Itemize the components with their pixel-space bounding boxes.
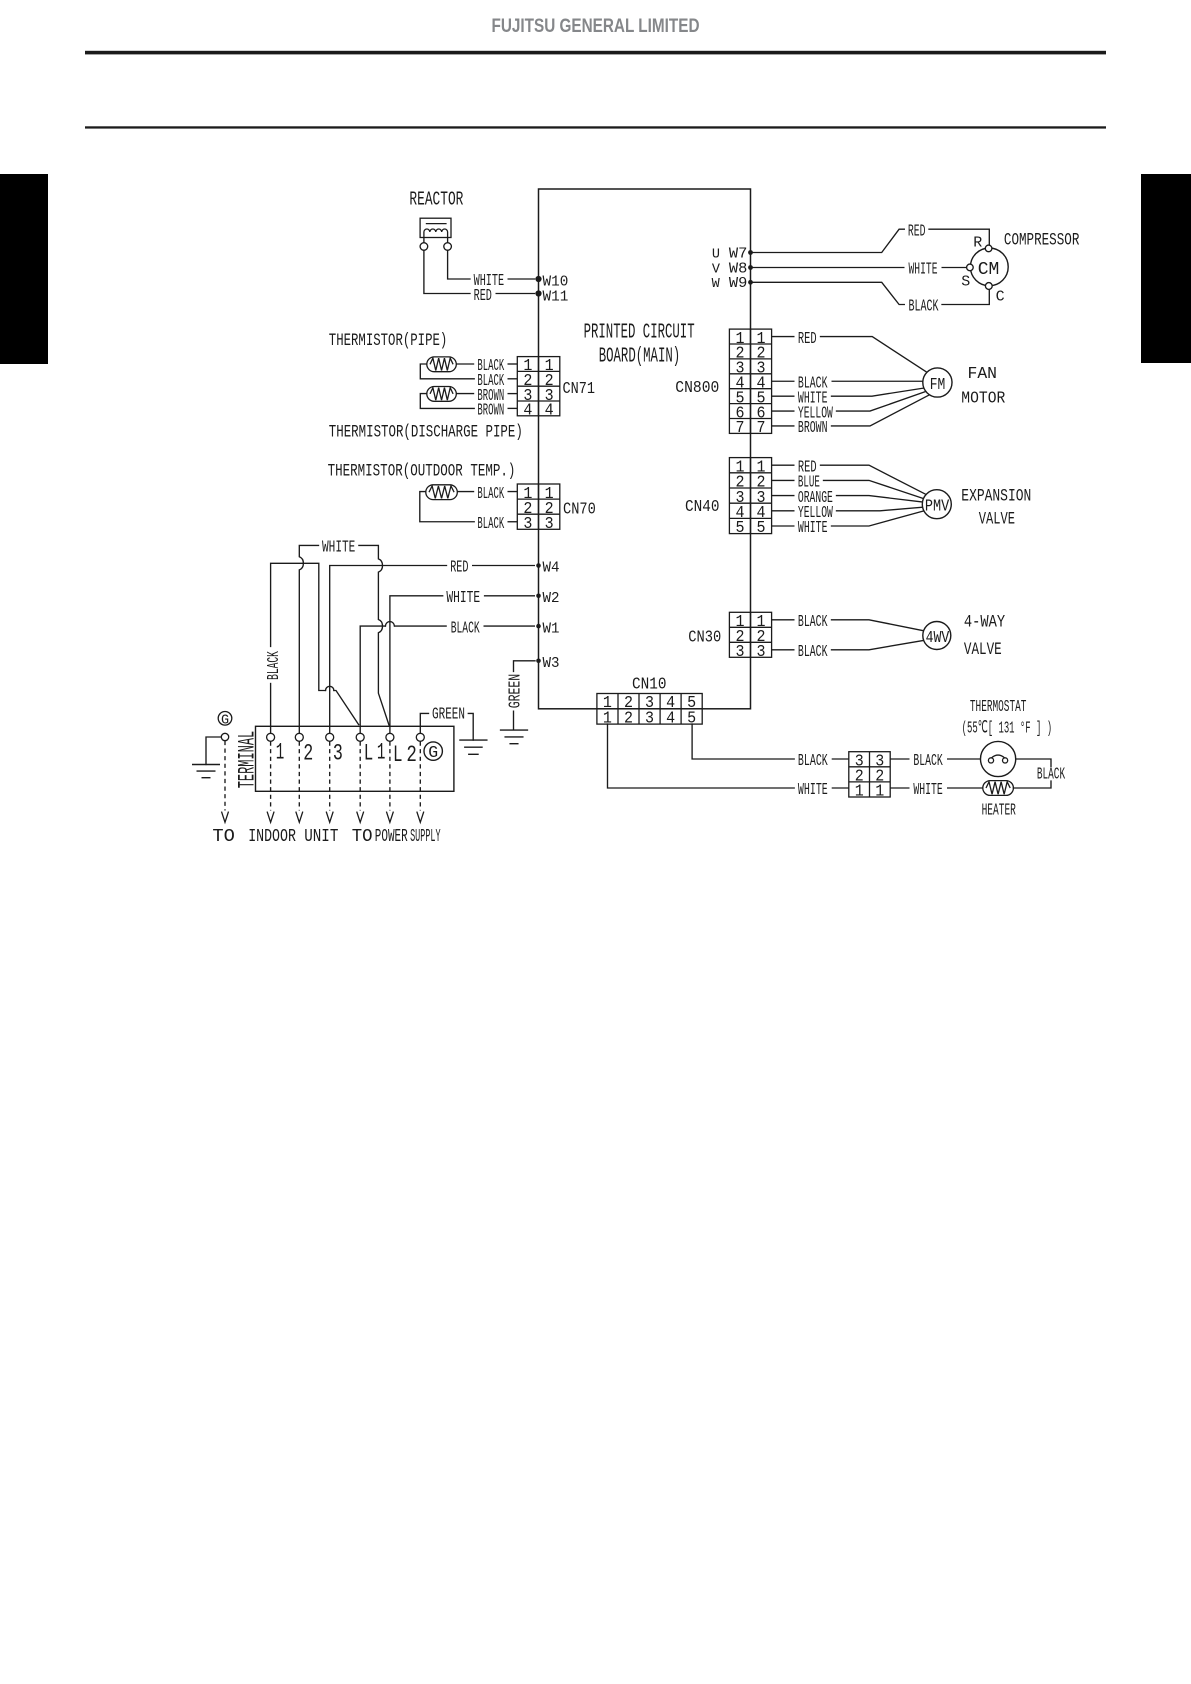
wire: CN40 pin3 to expansion valve	[837, 496, 923, 502]
svg-text:BLACK: BLACK	[798, 752, 828, 771]
svg-text:GREEN: GREEN	[432, 705, 465, 724]
svg-text:WHITE: WHITE	[322, 539, 355, 558]
arrow terminal 4	[357, 812, 364, 823]
terminal screw 5	[386, 733, 394, 741]
compressor terminal S	[967, 264, 974, 271]
svg-text:RED: RED	[908, 222, 926, 241]
svg-text:THERMOSTAT: THERMOSTAT	[970, 698, 1027, 717]
connector CN40	[729, 458, 771, 534]
svg-text:VALVE: VALVE	[964, 640, 1002, 660]
node W7	[748, 250, 753, 255]
arrow terminal 3	[326, 812, 333, 823]
wire: CN800 pin6 stub (yellow)	[772, 410, 795, 412]
wire: CN800 pin7 to fan motor	[832, 395, 929, 426]
svg-text:G: G	[221, 713, 229, 728]
wire: W4 line right part	[472, 565, 535, 567]
node W8	[748, 265, 753, 270]
svg-text:7: 7	[735, 419, 744, 438]
svg-text:1: 1	[377, 739, 386, 766]
wire: TH1 to CN71 pin2 (black), left part	[420, 364, 474, 379]
svg-text:W3: W3	[543, 655, 560, 672]
svg-text:BROWN: BROWN	[477, 402, 504, 421]
arrow earth	[222, 812, 229, 823]
svg-text:REACTOR: REACTOR	[409, 189, 463, 211]
wire: thermostat to heater (black), upper part	[1016, 759, 1051, 767]
svg-text:L: L	[393, 742, 403, 769]
wire: CN800 pin4 stub (black)	[772, 380, 795, 382]
wire: CN10 pin1 to interface (white), left part	[608, 724, 795, 788]
reactor terminal (left)	[420, 243, 428, 251]
ground (W3)	[500, 730, 528, 744]
wire: reactor to W11 (red), right part	[496, 293, 536, 295]
wire: W3 green lower	[513, 711, 515, 731]
heater element	[983, 781, 1014, 796]
wire: W7 to compressor R (red), left part	[751, 229, 905, 252]
wire: TH3 to CN70 pin1 (black), right part	[508, 491, 518, 493]
svg-text:FUJITSU GENERAL LIMITED: FUJITSU GENERAL LIMITED	[492, 16, 700, 37]
svg-text:CN40: CN40	[685, 498, 720, 517]
terminal screw 4	[356, 733, 364, 741]
node W11	[535, 290, 541, 296]
svg-text:4: 4	[523, 402, 532, 421]
svg-text:W9: W9	[729, 275, 748, 292]
wire: interface pin1 stub (white)	[890, 787, 909, 789]
wire: white to interface connector	[832, 787, 849, 789]
wire: link diagonal to L1	[334, 691, 359, 725]
wire: CN40 pin4 to expansion valve	[837, 507, 923, 511]
wire: CN40 pin1 stub (red)	[772, 464, 795, 466]
wire: TH1 to CN71 pin2 (black), right part	[508, 378, 518, 380]
thermistor TH3 (outdoor temp)	[426, 485, 458, 500]
svg-text:V: V	[712, 262, 721, 277]
svg-text:THERMISTOR(DISCHARGE PIPE): THERMISTOR(DISCHARGE PIPE)	[329, 422, 523, 442]
wire: CN40 pin5 to expansion valve	[832, 511, 924, 526]
wire: dashed lead earth	[224, 741, 226, 811]
earth terminal screw (left)	[221, 733, 228, 740]
reactor L (iron-core inductor)	[420, 218, 451, 237]
wire: W9 to compressor C (black), right part	[942, 290, 989, 305]
svg-text:W: W	[712, 277, 721, 292]
svg-text:UNIT: UNIT	[304, 827, 338, 847]
wire: W9 to compressor C (black), left part	[751, 282, 905, 304]
svg-text:BLACK: BLACK	[798, 613, 828, 632]
wire: reactor to W10 (white), left part	[448, 250, 470, 279]
wire: dashed lead terminal 3	[329, 742, 331, 811]
wire: dashed lead terminal 6	[419, 742, 421, 811]
arrow terminal 2	[296, 812, 303, 823]
wire: W1 line mid	[394, 625, 446, 627]
svg-text:BLACK: BLACK	[477, 515, 504, 534]
node W3	[536, 659, 541, 664]
svg-text:POWER: POWER	[375, 827, 408, 847]
wire hop: W1 line over L2 riser	[385, 622, 394, 627]
svg-text:4-WAY: 4-WAY	[964, 613, 1006, 633]
wire: TH1 to CN71 pin1 (black), right part	[508, 363, 518, 365]
svg-text:PMV: PMV	[925, 498, 950, 517]
header thin rule	[85, 126, 1106, 128]
svg-text:S: S	[961, 273, 970, 290]
wire: black to interface connector	[832, 758, 849, 760]
svg-text:THERMISTOR(OUTDOOR TEMP.): THERMISTOR(OUTDOOR TEMP.)	[328, 462, 516, 482]
svg-text:BLACK: BLACK	[798, 643, 828, 662]
reactor terminal (right)	[444, 243, 452, 251]
thermistor TH1 (pipe)	[427, 357, 457, 372]
svg-text:SUPPLY: SUPPLY	[410, 827, 441, 847]
svg-text:RED: RED	[474, 287, 492, 306]
svg-text:3: 3	[523, 515, 532, 534]
wire: CN40 pin2 to expansion valve	[824, 480, 924, 498]
thermistor TH2 (discharge pipe)	[427, 387, 457, 402]
wire: CN30 pin1 stub (black)	[772, 619, 795, 621]
wire: dashed lead terminal 1	[270, 742, 272, 811]
connector CN800	[729, 329, 771, 433]
connector CN30	[729, 612, 771, 657]
svg-text:4: 4	[545, 402, 554, 421]
compressor terminal R	[985, 245, 992, 252]
connector CN70	[517, 484, 560, 529]
svg-text:CM: CM	[978, 260, 1000, 280]
terminal screw 3	[326, 733, 334, 741]
terminal block TB	[256, 726, 454, 791]
wire: CN40 pin4 stub (yellow)	[772, 510, 795, 512]
svg-text:TO: TO	[212, 827, 235, 847]
wire: dashed lead terminal 4	[359, 742, 361, 811]
wire: W1 line right part	[484, 625, 536, 627]
svg-text:4: 4	[666, 710, 675, 729]
arrow terminal 1	[267, 812, 274, 823]
node W1	[536, 624, 541, 629]
svg-text:BROWN: BROWN	[798, 419, 828, 438]
svg-text:3: 3	[735, 643, 744, 662]
wire: CN10 pin5 to interface (black), left part	[692, 724, 794, 759]
svg-text:3: 3	[545, 515, 554, 534]
wire: terminal2 riser with jog + WHITE link left	[299, 545, 318, 733]
svg-text:BOARD(MAIN): BOARD(MAIN)	[599, 346, 681, 369]
wire: TH2 to CN71 pin3 (brown), right part	[508, 393, 518, 395]
svg-text:W2: W2	[543, 590, 560, 607]
wire: WHITE link right + drop with jogs + diagonal to L2	[359, 545, 389, 726]
wire: CN40 pin2 stub (blue)	[772, 479, 795, 481]
wire: terminal G green, right part	[468, 713, 473, 740]
svg-text:WHITE: WHITE	[913, 781, 942, 800]
svg-text:7: 7	[757, 419, 766, 438]
svg-text:BLACK: BLACK	[913, 752, 943, 771]
svg-text:5: 5	[757, 519, 766, 538]
wire: W2 line right part	[484, 595, 535, 597]
wire: TH2 to CN71 pin3 (brown), left part	[456, 393, 474, 395]
svg-text:MOTOR: MOTOR	[961, 390, 1005, 409]
svg-text:1: 1	[276, 739, 285, 766]
wire: W3 green upper	[514, 661, 536, 672]
svg-text:WHITE: WHITE	[909, 261, 938, 280]
wire: terminal G green, left part	[420, 713, 428, 733]
svg-text:TERMINAL: TERMINAL	[234, 731, 260, 789]
svg-text:2: 2	[406, 742, 417, 769]
svg-text:WHITE: WHITE	[798, 781, 828, 800]
svg-text:BLACK: BLACK	[265, 651, 284, 680]
arrow terminal 5	[386, 812, 393, 823]
svg-text:WHITE: WHITE	[446, 589, 480, 608]
connector CN10	[597, 694, 702, 725]
wire: thermostat to heater (black), lower part	[1013, 781, 1051, 788]
compressor motor CM	[970, 248, 1008, 286]
svg-text:4WV: 4WV	[926, 629, 950, 648]
expansion valve coil PMV	[922, 490, 951, 519]
wire: reactor right lead	[447, 238, 449, 243]
svg-text:1: 1	[855, 783, 864, 802]
terminal screw 1	[267, 733, 275, 741]
svg-text:5: 5	[735, 519, 744, 538]
svg-text:CN800: CN800	[675, 379, 719, 398]
wire: CN800 pin4 to fan motor	[832, 380, 923, 382]
fan motor FM	[923, 368, 952, 397]
left edge tab	[0, 174, 48, 364]
svg-text:(55℃[ 131 °F ] ): (55℃[ 131 °F ] )	[962, 720, 1053, 739]
wire: TH3 to CN70 pin1 (black), left part	[457, 491, 474, 493]
wire: CN800 pin5 to fan motor	[832, 388, 924, 396]
wire: terminal1 riser upper + across + link down	[271, 563, 326, 690]
wire: W7 to compressor R (red), right part	[929, 229, 989, 245]
svg-text:G: G	[428, 743, 438, 762]
svg-text:2: 2	[303, 740, 313, 767]
node W4	[536, 563, 541, 568]
wire: CN800 pin1 to fan motor	[821, 337, 927, 373]
wire: W8 to compressor S (white), left part	[751, 267, 905, 269]
svg-text:CN30: CN30	[688, 629, 721, 648]
svg-text:BLACK: BLACK	[909, 298, 939, 317]
wire: W8 to compressor S (white), right part	[942, 267, 967, 269]
svg-text:U: U	[712, 247, 720, 262]
svg-text:RED: RED	[450, 559, 468, 578]
4-way valve coil 4WV	[923, 622, 951, 650]
wire: CN800 pin7 stub (brown)	[772, 425, 795, 427]
wire: reactor to W11 (red), left part	[424, 250, 470, 293]
wire: earth terminal to ground	[206, 737, 221, 765]
wire: L1 riser + W1 line left	[360, 626, 385, 733]
terminal G ring	[424, 742, 442, 760]
svg-text:CN70: CN70	[563, 501, 596, 520]
svg-text:EXPANSION: EXPANSION	[961, 487, 1031, 507]
interface connector (thermostat/heater)	[849, 752, 890, 797]
svg-text:THERMISTOR(PIPE): THERMISTOR(PIPE)	[329, 331, 448, 351]
connector CN71	[517, 357, 560, 416]
svg-text:3: 3	[333, 740, 343, 767]
svg-text:INDOOR: INDOOR	[248, 827, 296, 847]
wire: reactor to W10 (white), right part	[508, 278, 536, 280]
wire: reactor left lead	[423, 238, 425, 243]
wire: TH3 to CN70 pin3 (black), left part	[420, 492, 474, 522]
svg-text:CN10: CN10	[632, 676, 667, 695]
svg-text:FM: FM	[930, 376, 946, 395]
arrow terminal 6	[417, 812, 424, 823]
svg-text:COMPRESSOR: COMPRESSOR	[1004, 231, 1080, 251]
compressor terminal C	[985, 283, 992, 290]
svg-text:VALVE: VALVE	[979, 510, 1015, 530]
wire: dashed lead terminal 2	[298, 742, 300, 811]
svg-text:PRINTED CIRCUIT: PRINTED CIRCUIT	[584, 321, 695, 344]
svg-text:RED: RED	[798, 330, 817, 349]
wire hop: link over terminal3 riser	[326, 686, 334, 690]
terminal screw 2	[295, 733, 303, 741]
wire: black to thermostat	[947, 758, 981, 760]
ground (terminal G)	[459, 740, 487, 754]
svg-text:FAN: FAN	[968, 365, 998, 384]
svg-text:2: 2	[624, 710, 633, 729]
wire: CN800 pin5 stub (white)	[772, 395, 795, 397]
wire: CN40 pin5 stub (white)	[772, 525, 795, 527]
svg-text:BLACK: BLACK	[451, 619, 480, 638]
header thick rule	[85, 51, 1106, 55]
svg-text:TO: TO	[352, 827, 373, 847]
svg-text:WHITE: WHITE	[798, 519, 828, 538]
wire: TH3 to CN70 pin3 (black), right part	[508, 521, 518, 523]
wire: CN30 pin1 to 4-way valve	[832, 620, 925, 631]
wire: terminal1 riser lower (black)	[270, 684, 272, 734]
svg-text:C: C	[996, 288, 1005, 305]
node W10	[535, 276, 541, 282]
wire: terminal3 to W4 (red), left part	[330, 566, 447, 734]
wire: interface pin3 stub (black)	[890, 758, 909, 760]
svg-text:1: 1	[875, 783, 884, 802]
svg-text:R: R	[973, 234, 982, 251]
wire: CN800 pin6 to fan motor	[837, 392, 926, 411]
node W2	[536, 594, 541, 599]
wire: L2 riser + W2 line left	[390, 596, 443, 733]
wire: TH2 to CN71 pin4 (brown), right part	[508, 407, 518, 409]
wire: white to heater	[947, 787, 983, 789]
svg-text:W1: W1	[543, 620, 560, 637]
wire: CN30 pin3 to 4-way valve	[832, 640, 925, 650]
node W9	[748, 280, 753, 285]
svg-text:W4: W4	[543, 560, 560, 577]
ground (left earth)	[192, 765, 220, 778]
svg-text:CN71: CN71	[563, 380, 596, 399]
wire: dashed lead terminal 5	[389, 742, 391, 811]
svg-text:BLACK: BLACK	[477, 485, 504, 504]
wire: TH1 to CN71 pin1 (black), left part	[456, 363, 474, 365]
svg-text:W11: W11	[543, 288, 569, 305]
thermostat TS	[981, 741, 1016, 776]
earth G ring (left)	[218, 712, 232, 726]
svg-text:L: L	[364, 741, 374, 768]
wire: CN40 pin1 to expansion valve	[821, 465, 926, 494]
terminal screw 6	[416, 733, 424, 741]
thermostat contacts	[988, 755, 1007, 763]
wire: TH2 to CN71 pin4 (brown), left part	[420, 394, 474, 409]
svg-text:HEATER: HEATER	[982, 801, 1016, 820]
wire: CN800 pin1 stub (red)	[772, 336, 795, 338]
svg-text:3: 3	[757, 643, 766, 662]
wire: CN30 pin3 stub (black)	[772, 649, 795, 651]
wire: CN40 pin3 stub (orange)	[772, 495, 795, 497]
svg-text:3: 3	[645, 710, 654, 729]
printed circuit board (main) outline	[539, 189, 751, 709]
svg-text:GREEN: GREEN	[507, 674, 526, 709]
right edge tab	[1141, 174, 1191, 363]
